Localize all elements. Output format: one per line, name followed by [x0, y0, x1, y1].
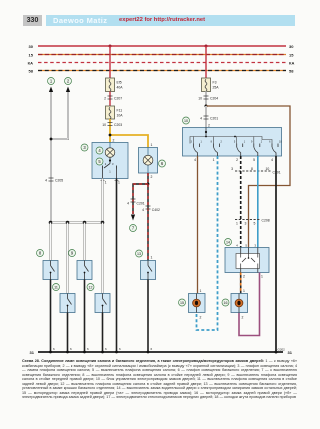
connector C204 [198, 92, 218, 107]
fuse F11 10A [106, 106, 124, 119]
wire red-black dashed branch to arrow 7 [131, 184, 148, 221]
door switch 11 [60, 294, 75, 313]
wire purple switch 14 to motor 16 (return) [239, 273, 260, 336]
connector C402 on main dashed wire [142, 206, 160, 212]
svg-text:8: 8 [251, 167, 253, 171]
bus 15 [29, 52, 295, 57]
unit 10 contact group a [191, 141, 203, 157]
svg-text:2: 2 [208, 124, 210, 128]
svg-text:1: 1 [118, 181, 120, 185]
svg-text:58: 58 [289, 68, 294, 73]
connector C205 on white wire [45, 178, 63, 183]
svg-text:13: 13 [137, 252, 141, 256]
svg-text:1: 1 [236, 222, 238, 226]
connector C201 line under unit 10 [231, 167, 281, 175]
svg-text:4: 4 [194, 158, 196, 162]
svg-text:C207: C207 [114, 97, 122, 101]
svg-text:2: 2 [104, 97, 106, 101]
door switch 9 [77, 261, 92, 280]
fuse F3 25A [202, 78, 220, 92]
svg-text:15: 15 [29, 52, 34, 57]
wire orange-black dashed switch 14 to motor 16 [241, 273, 245, 294]
connector C203 [102, 119, 122, 127]
svg-text:КА: КА [28, 60, 33, 65]
svg-text:2: 2 [236, 158, 238, 162]
unit 10 contact group b [211, 141, 223, 157]
fuse Ef5 40A [106, 78, 124, 92]
ground bus 31 [30, 347, 293, 355]
trunk light switch 13 [141, 256, 156, 280]
svg-text:6: 6 [87, 347, 89, 351]
svg-text:2: 2 [113, 139, 115, 143]
svg-text:10: 10 [198, 97, 202, 101]
wire white from node 2 [50, 92, 68, 140]
svg-text:C204: C204 [210, 97, 218, 101]
svg-text:12: 12 [89, 286, 93, 290]
door switch 8 [43, 261, 58, 280]
svg-text:16: 16 [224, 301, 228, 305]
svg-text:4: 4 [236, 244, 238, 248]
header red watermark [119, 17, 205, 23]
header title Daewoo Matiz [53, 16, 107, 25]
svg-text:C201: C201 [210, 117, 218, 121]
lock motor 16 [231, 294, 248, 313]
unit 10 contact group c [234, 141, 246, 157]
door lock control unit 10 [183, 128, 282, 157]
svg-text:3: 3 [231, 167, 233, 171]
node 3 [81, 144, 88, 151]
svg-text:58: 58 [29, 68, 34, 73]
svg-text:5: 5 [254, 222, 256, 226]
svg-text:1: 1 [243, 289, 245, 293]
node 7 [130, 225, 137, 232]
svg-text:10: 10 [184, 119, 188, 123]
svg-text:30: 30 [29, 44, 34, 49]
svg-text:G202: G202 [278, 348, 286, 352]
svg-text:F3: F3 [213, 81, 217, 85]
svg-text:2: 2 [200, 316, 202, 320]
svg-text:4: 4 [142, 208, 144, 212]
node 8 [37, 250, 44, 257]
switch 5 [103, 157, 117, 178]
svg-text:F11: F11 [117, 109, 123, 113]
figure caption [22, 359, 297, 400]
svg-text:40A: 40A [117, 86, 124, 90]
lock motor 15 [189, 294, 206, 313]
wire red drop to fuse Ef5 [109, 45, 112, 79]
door switch 12 [95, 294, 110, 313]
door switch net (white wire tee) [49, 221, 105, 225]
svg-text:10: 10 [266, 167, 270, 171]
ground point G202 [278, 348, 286, 352]
wire blue unit 10 to lock switch 14 [257, 156, 259, 248]
wire black switch 11 to ground [67, 313, 69, 353]
svg-text:C201: C201 [137, 202, 145, 206]
svg-text:1: 1 [261, 275, 263, 279]
svg-text:6: 6 [151, 347, 153, 351]
header cyan bar [46, 15, 295, 27]
bus 30 [29, 44, 295, 49]
node 10 [183, 117, 190, 124]
svg-text:15: 15 [180, 301, 184, 305]
wire yellow feed [109, 127, 148, 148]
svg-text:3: 3 [254, 244, 256, 248]
connector C207 [104, 92, 122, 107]
wire black switch 12 to ground [102, 313, 104, 353]
svg-text:1: 1 [200, 289, 202, 293]
svg-text:Ef5: Ef5 [117, 81, 122, 85]
wire white to switch 12 [102, 223, 104, 294]
svg-text:10A: 10A [117, 114, 124, 118]
pin 2 under lamp 6 [151, 175, 153, 179]
svg-text:4: 4 [127, 202, 129, 206]
node 15 [179, 299, 186, 306]
node 1 (arrow from other sheet) [48, 78, 55, 93]
wire black into control unit 10 [200, 106, 218, 128]
svg-text:4: 4 [45, 179, 47, 183]
svg-text:C402: C402 [152, 208, 160, 212]
node junction fuse F3 output [205, 105, 208, 108]
svg-text:5: 5 [245, 244, 247, 248]
svg-text:4: 4 [271, 158, 273, 162]
wire white from node 1 [50, 92, 52, 223]
svg-text:1: 1 [213, 158, 215, 162]
node 13 [136, 250, 143, 257]
lamp 4 [105, 143, 115, 158]
wire white from switch 5 to door-switch net [102, 179, 104, 223]
node 6 [159, 160, 166, 167]
connector C208 line [235, 219, 270, 226]
node 4 [96, 147, 103, 154]
wire white to switch 11 [67, 223, 69, 294]
svg-text:11: 11 [54, 286, 58, 290]
wire black dome light to ground bus [116, 179, 118, 353]
svg-text:15: 15 [289, 52, 294, 57]
svg-text:C205: C205 [55, 179, 63, 183]
svg-text:31: 31 [288, 350, 293, 355]
wire black dashed unit 10 to lock switch 14 [240, 156, 242, 248]
svg-text:6: 6 [53, 347, 55, 351]
node 9 [69, 250, 76, 257]
node 11 [53, 284, 60, 291]
trunk lamp unit 6 [139, 143, 158, 173]
svg-text:6: 6 [70, 347, 72, 351]
svg-text:6: 6 [119, 347, 121, 351]
header page number 330 [23, 15, 42, 26]
svg-text:2: 2 [243, 275, 245, 279]
svg-text:2: 2 [151, 175, 153, 179]
unit 10 contact group d [251, 141, 263, 157]
svg-text:31: 31 [30, 350, 35, 355]
dome light unit 3 (box with lamp 4 and switch 5) [92, 143, 128, 179]
node 12 [87, 284, 94, 291]
svg-text:30: 30 [289, 44, 294, 49]
node 16 [222, 299, 229, 306]
svg-text:1: 1 [151, 143, 153, 147]
pin 1 labels under dome light [101, 181, 121, 185]
wire black switch 9 to ground [84, 280, 86, 353]
bus 58 [29, 68, 295, 73]
wire blue dashed unit 10 to motor 15 (return) [197, 156, 218, 330]
node 2 (arrow from other sheet) [65, 78, 72, 93]
wire black switch 8 to ground [50, 280, 52, 353]
svg-text:6: 6 [105, 347, 107, 351]
svg-text:5: 5 [253, 158, 255, 162]
svg-text:2: 2 [242, 316, 244, 320]
connector C201 on branch [127, 199, 145, 206]
unit 10 bottom pin labels [194, 158, 273, 162]
wire black switch 13 to ground [147, 280, 149, 353]
wire white to switch 9 [84, 223, 86, 261]
wire red-black dashed from lamp 6 [147, 173, 150, 185]
svg-text:C208: C208 [262, 219, 270, 223]
wire red drop to fuse F3 [205, 45, 208, 79]
svg-text:10: 10 [102, 123, 106, 127]
svg-text:C203: C203 [114, 123, 122, 127]
svg-text:25A: 25A [213, 86, 220, 90]
node 5 [96, 158, 103, 165]
wire brown feed to lock switch 14 [206, 106, 290, 248]
svg-text:4: 4 [200, 117, 202, 121]
svg-text:1: 1 [105, 181, 107, 185]
svg-text:3: 3 [245, 222, 247, 226]
unit 10 contact group e [269, 141, 282, 157]
svg-text:14: 14 [226, 241, 230, 245]
driver door lock switch 14 [225, 244, 269, 279]
svg-text:1: 1 [151, 256, 153, 260]
node 14 [225, 239, 232, 246]
wire brown unit 10 to motor 15 [198, 156, 202, 294]
wire black unit 10 to ground bus [275, 156, 277, 352]
bus KA [28, 60, 295, 65]
wire white to switch 8 [50, 223, 52, 261]
wire red-black dashed to trunk switch 13 [147, 184, 149, 261]
svg-text:КА: КА [289, 60, 294, 65]
